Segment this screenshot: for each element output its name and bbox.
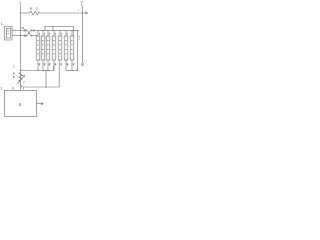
svg-text:5: 5 [19, 102, 22, 107]
display cell D6 body [64, 36, 68, 60]
display cell D2 body [41, 36, 45, 60]
crossover X of the two lines [27, 30, 31, 35]
wire: oscillator lower output y=35.7 [12, 35, 27, 37]
wire: cell 5 anode pin [59, 30, 61, 36]
display cell D4 [52, 30, 56, 70]
oscillator U1 (left box) [5, 27, 13, 41]
wire: resistor to right rail and output arrow at y=13 [40, 12, 88, 14]
bus B: second bus y=26.5 with drop at x=73.5 [45, 27, 74, 36]
wire: cell 2 anode pin [42, 30, 44, 36]
pin label cell 7 [73, 63, 74, 65]
wire: drop from L1 to L2 at x=46 [45, 71, 47, 88]
label 1 (above oscillator) [1, 22, 3, 26]
oscillator U1 inner text [7, 31, 8, 35]
display cell D1 body [36, 36, 40, 60]
svg-text:6: 6 [12, 87, 14, 91]
wire L1: common return of cells 1-4 at y=70.5 [21, 66, 54, 71]
svg-text:4: 4 [21, 85, 23, 89]
coupling ticks on upper line [23, 29, 25, 32]
cell top labels [39, 33, 80, 40]
resistor R2 value label [30, 7, 38, 11]
svg-text:7: 7 [23, 81, 25, 85]
wire: main vertical rail x=20.5 from top to control box [20, 5, 22, 91]
control box 5 label [19, 102, 22, 107]
node junction dot (20.5,13) [20, 12, 21, 13]
label marks near rail crossing [22, 27, 24, 29]
wire: cell 6 cathode pin [65, 60, 67, 71]
svg-text:2: 2 [36, 7, 38, 11]
wire: Vcc vertical rail x=82.5 [82, 6, 84, 64]
svg-text:R: R [30, 7, 33, 11]
pin label cell 3 [49, 63, 50, 65]
display cell D6 electrode marks [65, 40, 67, 54]
display cell D3 [46, 30, 50, 70]
svg-text:1: 1 [1, 22, 3, 26]
potentiometer wiper arrow [18, 76, 24, 83]
wire: cell 7 anode pin [71, 30, 73, 36]
wire: cell 1 cathode pin [37, 60, 39, 71]
svg-text:1: 1 [19, 1, 21, 5]
wire: cell 4 cathode pin [53, 60, 55, 71]
display cell D5 electrode marks [59, 40, 61, 54]
wire stub x=53 joining buses [52, 27, 54, 31]
potentiometer labels [12, 73, 25, 91]
display cell D5 body [58, 36, 62, 60]
display cell D1 [36, 30, 40, 70]
wire: cell 3 cathode pin [47, 60, 49, 71]
wire: cell 3 anode pin [47, 30, 49, 36]
svg-text:1: 1 [13, 65, 15, 69]
wire: cell 6 anode pin [65, 30, 67, 36]
label top-left of control box [1, 87, 3, 91]
wire: cell 5 cathode pin [58, 60, 60, 87]
arrow output (right-pointing) [85, 12, 87, 15]
svg-text:1: 1 [1, 87, 3, 91]
node Vcc label [81, 0, 84, 7]
wire: horizontal from rail to resistor at y=13 [21, 12, 30, 14]
pin label cell 2 [44, 63, 45, 65]
wire stub x=45 joining buses [44, 27, 46, 31]
display cell D4 body [52, 36, 56, 60]
display cell D4 electrode marks [53, 40, 55, 54]
arrowhead down at bottom of Vcc rail [81, 63, 83, 66]
pin label cell 6 [67, 63, 68, 65]
display cell D6 [64, 30, 68, 70]
potentiometer RV1 on left rail [18, 73, 25, 84]
node 3 label with leader [33, 29, 35, 33]
display cell D2 electrode marks [42, 40, 44, 54]
pin label cell 1 [39, 63, 40, 65]
resistor R2 (zigzag) [30, 11, 40, 15]
display cell D3 body [46, 36, 50, 60]
label t1 next to junction [78, 8, 79, 12]
wire L3: return of cells 6-7 at y=70.5 [66, 70, 78, 72]
wire: cell 7 cathode pin [71, 60, 73, 71]
display cell D1 electrode marks [37, 40, 39, 54]
junction dots on buses [44, 26, 45, 27]
arrow: control box output [37, 103, 44, 105]
wire: cell 4 anode pin [53, 30, 55, 36]
wire: cell 2 cathode pin [42, 60, 44, 71]
coupling ticks on lower line [23, 34, 25, 37]
control box 5 [5, 91, 37, 117]
wire: far-right cathode wire x=77.5 [77, 30, 79, 70]
wire: cell 1 anode pin [37, 30, 39, 36]
pin label cell 5 [60, 63, 61, 65]
pin label cell 4 [55, 63, 56, 65]
node junction dot (82.5,13) [82, 12, 83, 13]
svg-text:t: t [78, 8, 79, 12]
display cell D7 [70, 30, 74, 70]
wire: lower line into first cell top [32, 35, 39, 37]
node V1 label (top of left rail) [19, 1, 21, 5]
oscillator U1 inner box [6, 28, 10, 38]
node junction dots after crossover [31, 30, 32, 31]
display cell D7 electrode marks [71, 40, 73, 54]
wire: oscillator upper output y=30.3 [12, 29, 27, 31]
display cell D7 body [70, 36, 74, 60]
display cell D5 [58, 30, 62, 87]
display cell D2 [41, 30, 45, 70]
label left of L1 junction [13, 65, 15, 69]
display cell D3 electrode marks [47, 40, 49, 54]
bus A: upper electrode bus y=30.3 [32, 29, 80, 31]
wire L2: lower return bus y=87 [24, 86, 60, 88]
